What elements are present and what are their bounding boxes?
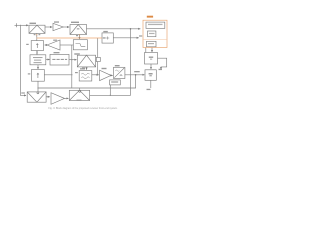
svg-text:Fig. 4: Block diagram of the p: Fig. 4: Block diagram of the proposed re… <box>48 107 118 110</box>
